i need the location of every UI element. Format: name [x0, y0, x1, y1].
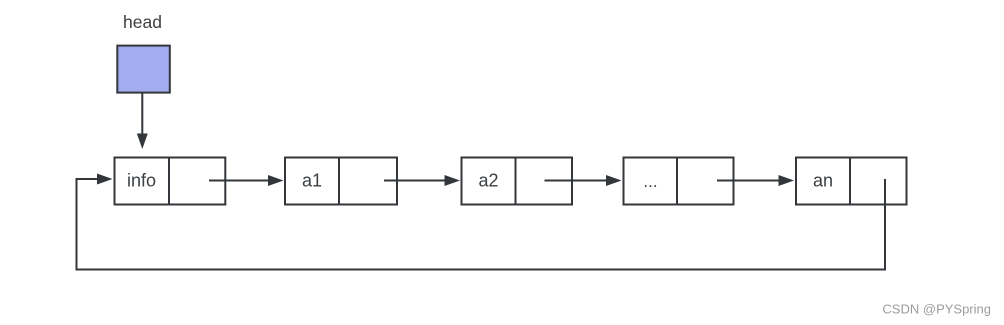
svg-text:an: an: [813, 171, 833, 191]
svg-text:a2: a2: [478, 171, 498, 191]
node a2: [462, 158, 573, 205]
wire head to info: [141, 94, 143, 135]
svg-text:info: info: [127, 171, 156, 191]
svg-text:head: head: [123, 12, 162, 32]
node an: [796, 158, 907, 205]
wire a2 to dots node: [545, 180, 608, 182]
node a1: [285, 158, 397, 205]
svg-text:CSDN @PYSpring: CSDN @PYSpring: [882, 302, 991, 317]
wire dots node to an: [717, 180, 780, 182]
node dots: [624, 158, 734, 205]
node info: [115, 158, 226, 205]
svg-text:...: ...: [643, 172, 657, 191]
wire an back to info (circular link): [77, 179, 886, 270]
wire info to a1: [209, 180, 270, 182]
node head (pointer box): [117, 46, 170, 93]
wire a1 to a2: [384, 180, 446, 182]
svg-text:a1: a1: [302, 171, 322, 191]
